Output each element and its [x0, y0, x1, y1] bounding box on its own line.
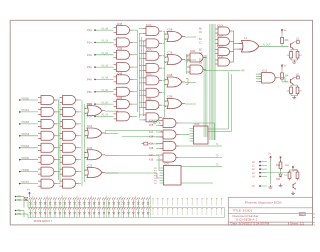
diode matrix row 2 wire	[28, 216, 225, 218]
wires top cluster mesh	[133, 29, 197, 120]
svg-text:IN_0A: IN_0A	[102, 27, 109, 30]
svg-text:C1: C1	[199, 43, 203, 45]
and-gate U2B	[143, 39, 162, 48]
or-gate U6	[239, 41, 263, 53]
node pad J1	[259, 165, 261, 167]
svg-text:IC9B: IC9B	[167, 96, 173, 99]
svg-text:V+: V+	[284, 30, 288, 32]
and-gate U11A	[160, 119, 179, 128]
svg-text:IC12A: IC12A	[217, 45, 224, 48]
svg-text:P0A: P0A	[87, 28, 92, 32]
svg-text:IN_2A: IN_2A	[102, 52, 109, 55]
and-gate U11D	[160, 153, 179, 162]
input wire/label S4	[20, 147, 38, 149]
and-gate U2H	[143, 113, 162, 122]
svg-text:P6: P6	[154, 183, 157, 185]
svg-text:L3: L3	[252, 173, 255, 175]
svg-text:1K: 1K	[299, 91, 302, 93]
ground 1	[292, 60, 296, 63]
ic box IC30	[194, 126, 209, 144]
and-gate U2F	[143, 88, 162, 97]
svg-text:IC0B: IC0B	[117, 24, 123, 26]
wire R1a to base node	[281, 44, 283, 47]
and-gate U8E	[38, 143, 57, 152]
ground led1	[269, 185, 273, 188]
svg-text:P2A: P2A	[87, 53, 92, 57]
svg-text:TITLE: EC001: TITLE: EC001	[233, 208, 253, 212]
title block text	[231, 200, 306, 225]
svg-text:IC22: IC22	[87, 147, 93, 150]
svg-text:P5A: P5A	[87, 90, 92, 94]
transistor Q2	[291, 78, 294, 85]
and-gate U2A	[143, 27, 162, 36]
label brackets near U3B	[186, 56, 188, 85]
supply V+ led2	[279, 156, 281, 161]
and-gate U1E	[114, 75, 133, 84]
svg-text:V+: V+	[268, 153, 272, 156]
wire F input vertical	[185, 54, 187, 74]
bus band vertical 2	[209, 24, 216, 140]
transistor Q20	[293, 183, 296, 190]
wire U7 inputs	[256, 74, 259, 81]
and-gate U9G	[60, 167, 79, 176]
ground led3	[279, 184, 283, 187]
output pad 2	[293, 77, 295, 80]
svg-text:L4: L4	[252, 176, 255, 178]
wire D outputs long	[179, 123, 222, 183]
svg-text:K0A: K0A	[149, 120, 154, 123]
and-gate U9B	[60, 107, 79, 116]
svg-text:Date: 6/14/2017 5:24:09 PM: Date: 6/14/2017 5:24:09 PM	[231, 222, 270, 226]
ground led2	[291, 192, 295, 195]
svg-text:B1: B1	[199, 39, 203, 41]
or-gate U3B	[165, 55, 186, 65]
ic box IC31	[164, 166, 182, 186]
and-gate U2G	[143, 101, 162, 110]
svg-text:IC2A: IC2A	[146, 24, 152, 27]
svg-text:D20: D20	[276, 179, 281, 181]
resistor R1a	[281, 37, 284, 43]
wire U4B output	[204, 69, 241, 71]
svg-text:B2: B2	[199, 49, 203, 51]
and-gate U8H	[38, 179, 57, 188]
wire U6 to Q1 base	[259, 45, 289, 47]
and-gate U11C	[160, 142, 179, 151]
supply V+ 1	[281, 29, 283, 34]
svg-text:PB: PB	[18, 213, 22, 216]
and-gate U9C	[60, 119, 79, 128]
node pad J0	[259, 161, 261, 163]
wire R2a to base node	[281, 79, 283, 82]
and-gate U9E	[60, 143, 79, 152]
and-gate U8F	[38, 155, 57, 164]
and-gate U9D	[60, 131, 79, 140]
svg-text:L0: L0	[252, 162, 255, 164]
svg-text:IC2B: IC2B	[117, 49, 123, 51]
input wire/label S3	[20, 135, 38, 137]
svg-text:IN_3A: IN_3A	[102, 64, 109, 67]
wire E to IC30 vertical 2	[208, 74, 232, 132]
jumper component JP1	[142, 142, 148, 145]
and-gate U11B	[160, 130, 179, 139]
svg-text:IC10A: IC10A	[217, 24, 224, 27]
and-gate U1B	[114, 38, 133, 47]
svg-text:10K: 10K	[285, 76, 290, 78]
wire U4A output	[206, 57, 207, 59]
input wire/label P0	[95, 29, 113, 31]
svg-text:P4A: P4A	[87, 78, 92, 82]
svg-text:K2B: K2B	[149, 148, 154, 150]
svg-text:10K: 10K	[285, 40, 290, 42]
wire E outputs join	[232, 31, 242, 62]
svg-text:T3: T3	[216, 164, 219, 167]
svg-text:R20: R20	[276, 165, 281, 167]
wire V+ to R1a	[281, 34, 283, 37]
frame border	[10, 20, 312, 225]
and-gate U7 4-input	[259, 73, 278, 84]
resistor R20	[279, 160, 282, 171]
svg-text:PB: PB	[18, 199, 22, 202]
input wire/label S0	[20, 99, 38, 101]
svg-text:P1A: P1A	[87, 41, 92, 45]
input wire/label P2	[95, 54, 113, 56]
output pad 1	[293, 41, 295, 44]
and-gate U1C	[114, 50, 133, 59]
supply V+ 2	[281, 64, 283, 69]
input wire/label S1	[20, 111, 38, 113]
supply V+ led3	[292, 166, 294, 171]
wire resistor join 2	[291, 95, 298, 97]
svg-text:IN_4A: IN_4A	[102, 77, 109, 80]
svg-text:A_OUT: A_OUT	[263, 44, 271, 47]
svg-text:Phonetic Sequencer EC00: Phonetic Sequencer EC00	[245, 200, 282, 204]
svg-text:L1: L1	[252, 166, 255, 168]
svg-text:K3B: K3B	[149, 160, 154, 162]
supply V+ led1	[269, 156, 271, 161]
wire emitter 2	[293, 83, 295, 86]
svg-text:IC7B: IC7B	[167, 52, 173, 55]
and-gate U2D	[143, 64, 162, 73]
svg-text:IN_1A: IN_1A	[102, 40, 109, 43]
svg-text:IN_6A: IN_6A	[102, 101, 109, 104]
and-gate U1H	[114, 112, 133, 121]
input wire/label P4	[95, 78, 113, 80]
svg-text:IC9A: IC9A	[190, 50, 196, 53]
resistor R1c	[296, 50, 299, 61]
node pad J4	[259, 176, 261, 178]
svg-text:4,1: 4,1	[244, 37, 248, 40]
svg-text:IC12: IC12	[262, 70, 268, 73]
resistor R21	[288, 170, 291, 181]
title block outline	[228, 197, 312, 225]
svg-text:L5: L5	[252, 186, 255, 188]
wire emitter 1	[293, 48, 295, 51]
ic box IC31 pins	[160, 168, 164, 183]
input wire/label P1	[95, 41, 113, 43]
and-gate U8C	[38, 119, 57, 128]
input wire/label S2	[20, 123, 38, 125]
wires bottom-left mesh	[57, 100, 118, 186]
svg-text:C3: C3	[199, 63, 203, 65]
bus band vertical 1	[204, 55, 208, 137]
resistor R2b	[290, 85, 293, 96]
matrix input pads	[15, 196, 17, 198]
diode D99	[24, 198, 27, 201]
and-gate U5B	[216, 37, 233, 45]
ic box IC30 pins	[190, 129, 194, 142]
svg-text:IC23: IC23	[87, 165, 93, 168]
resistor R2a	[281, 73, 284, 79]
svg-text:R30: R30	[285, 165, 290, 167]
ground 2	[292, 96, 296, 99]
svg-text:P3A: P3A	[87, 65, 92, 69]
svg-text:B0: B0	[199, 29, 203, 31]
led D20	[279, 174, 282, 177]
matrix right end wire	[224, 208, 226, 218]
svg-text:K2A: K2A	[149, 143, 154, 146]
or-gate U3C	[165, 77, 186, 87]
svg-text:V+: V+	[27, 189, 31, 192]
or-gate U10A	[85, 106, 106, 116]
svg-text:IC6B: IC6B	[117, 98, 123, 100]
svg-text:1K: 1K	[287, 55, 290, 57]
svg-text:IC4A: IC4A	[146, 49, 152, 52]
svg-text:IC30: IC30	[194, 123, 200, 126]
wire dot4 to R21	[261, 172, 290, 174]
svg-text:K1B: K1B	[149, 137, 154, 139]
and-gate U2C	[143, 51, 162, 60]
input wire/label S5	[20, 159, 38, 161]
diode matrix row 1 cells	[29, 197, 223, 207]
or-gate U10C	[85, 150, 106, 160]
wire E to IC30 vertical 1	[208, 72, 229, 130]
svg-text:IC8B: IC8B	[167, 74, 173, 77]
and-gate U8G	[38, 167, 57, 176]
wire long or outputs	[106, 130, 164, 158]
input wire/label P7	[95, 115, 113, 117]
svg-text:IN_5A: IN_5A	[102, 89, 109, 92]
input wire/label S6	[20, 171, 38, 173]
svg-text:R9: R9	[242, 70, 246, 72]
svg-text:R21: R21	[294, 170, 299, 172]
svg-text:IC6A: IC6A	[146, 73, 152, 76]
svg-text:Sheet: 1/1: Sheet: 1/1	[290, 222, 304, 226]
svg-text:L2: L2	[252, 169, 255, 171]
wire U7 output	[276, 77, 285, 79]
svg-text:1K: 1K	[299, 55, 302, 57]
and-gate U8A	[38, 96, 57, 105]
wire led vertical	[270, 161, 272, 184]
and-gate U5D	[216, 58, 233, 66]
wire V+ to R2a	[281, 70, 283, 73]
or-gate U10D	[85, 168, 106, 178]
svg-text:T1: T1	[216, 143, 219, 146]
input wire/label P5	[95, 91, 113, 93]
svg-text:IC21: IC21	[87, 125, 93, 128]
and-gate U8D	[38, 131, 57, 140]
svg-text:V+: V+	[284, 66, 288, 68]
svg-text:C0: C0	[199, 32, 203, 34]
wire JP1 to U11B	[148, 143, 161, 145]
resistor R2c	[296, 85, 299, 96]
and-gate U1D	[114, 63, 133, 72]
svg-text:IC20: IC20	[87, 103, 93, 106]
diode matrix row 2 cells	[29, 207, 223, 217]
transistor Q1	[291, 42, 294, 49]
and-gate U4B	[187, 65, 206, 74]
and-gate U9A	[60, 96, 79, 105]
and-gate U1A	[114, 26, 133, 35]
svg-text:K0B: K0B	[149, 125, 154, 127]
and-gate U5A	[216, 27, 233, 35]
node pad J3	[259, 172, 261, 174]
input wire/label S7	[20, 183, 38, 185]
svg-text:NET_B: NET_B	[153, 123, 161, 125]
or-gate U10B	[85, 128, 106, 138]
matrix input wires	[16, 197, 28, 218]
svg-text:1K: 1K	[287, 91, 290, 93]
svg-text:IC4B: IC4B	[117, 73, 123, 75]
svg-text:IC6B: IC6B	[167, 29, 173, 32]
svg-text:P7A: P7A	[87, 115, 92, 119]
svg-text:IN_7A: IN_7A	[102, 114, 109, 117]
svg-text:DIODE ARRAY 1: DIODE ARRAY 1	[34, 220, 53, 223]
diode matrix row 1 wire	[28, 207, 225, 209]
svg-text:K1A: K1A	[149, 131, 154, 134]
node pad J2	[259, 168, 261, 170]
resistor R1b	[290, 50, 293, 61]
input wire/label P6	[95, 103, 113, 105]
resistor R22	[296, 170, 299, 181]
or-gate U3A	[165, 32, 186, 42]
matrix column wires	[33, 196, 151, 218]
and-gate U9H	[60, 179, 79, 188]
svg-text:IC13A: IC13A	[217, 55, 224, 58]
svg-text:D2: D2	[285, 175, 289, 177]
wire BL OR4 to IC31	[106, 158, 160, 178]
svg-text:IC8A: IC8A	[146, 98, 152, 101]
svg-text:K3A: K3A	[149, 154, 154, 157]
and-gate U9F	[60, 155, 79, 164]
svg-text:REV: REV	[300, 213, 305, 216]
wire resistor join 1	[291, 59, 298, 61]
or-gate U3D	[165, 99, 186, 109]
supply V+ bottom-left	[28, 192, 30, 197]
svg-text:IC31: IC31	[164, 163, 170, 166]
and-gate U4A	[187, 53, 206, 62]
and-gate U1F	[114, 87, 133, 96]
svg-text:IC11A: IC11A	[217, 35, 224, 38]
and-gate U1G	[114, 100, 133, 109]
svg-text:NET_A: NET_A	[153, 119, 161, 122]
and-gate U2E	[143, 76, 162, 85]
svg-text:T2: T2	[216, 155, 219, 158]
node pad J5	[259, 185, 261, 187]
input wire/label P3	[95, 66, 113, 68]
wire led cluster joins	[281, 170, 298, 174]
and-gate U5C	[216, 48, 233, 56]
and-gate U8B	[38, 107, 57, 116]
frame right ticks	[313, 214, 316, 225]
